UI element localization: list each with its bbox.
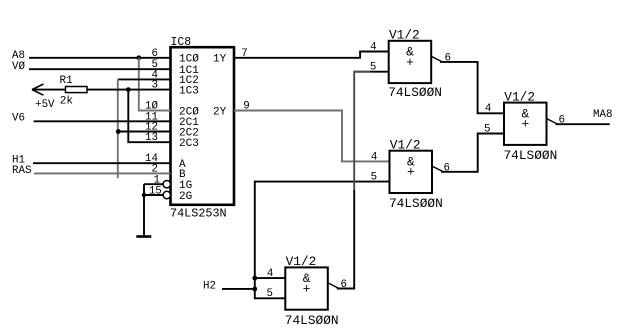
svg-text:2: 2	[152, 163, 158, 175]
wire 2G pin 15	[144, 194, 163, 196]
svg-text:+: +	[303, 281, 311, 296]
svg-text:15: 15	[149, 185, 162, 197]
svg-text:13: 13	[145, 132, 158, 144]
svg-text:74LSØØN: 74LSØØN	[388, 85, 442, 100]
inversion bubble 2G	[163, 191, 170, 198]
svg-text:IC8: IC8	[171, 36, 192, 49]
svg-text:V6: V6	[12, 112, 25, 124]
resistor R1	[66, 87, 88, 93]
node junction R1/2C3	[126, 87, 131, 92]
svg-text:2C3: 2C3	[179, 138, 199, 150]
wire 2Y to gate U1B pin 4	[234, 111, 390, 162]
gate U1B box 74LS00	[390, 151, 433, 193]
svg-text:6: 6	[444, 163, 450, 175]
svg-text:5: 5	[267, 288, 273, 300]
node junction H2/gateD pin4	[252, 276, 257, 281]
wire H1 to A pin 14	[33, 162, 171, 164]
wire 2C2 pin 12 stub	[118, 131, 170, 133]
svg-text:2G: 2G	[179, 191, 192, 203]
svg-text:74LSØØN: 74LSØØN	[389, 196, 443, 211]
gate U1B output slash	[432, 166, 443, 172]
svg-text:V1/2: V1/2	[389, 28, 420, 43]
wire H2	[222, 288, 255, 290]
inversion bubble 1G	[163, 181, 170, 188]
wire V6 to 2C1 pin 11	[34, 120, 171, 122]
svg-text:R1: R1	[60, 75, 74, 87]
wire U1D out upper to U1A pin 5	[354, 72, 370, 190]
wire V0 to 1C1 pin 5	[29, 68, 171, 70]
gate U1D output slash	[328, 283, 339, 289]
svg-text:4: 4	[485, 103, 491, 115]
op-amp gate U1A box 74LS00	[389, 41, 432, 83]
svg-text:4: 4	[267, 268, 273, 280]
node junction A8/2C0	[136, 55, 141, 60]
svg-text:+5V: +5V	[35, 99, 55, 111]
svg-text:MA8: MA8	[593, 109, 612, 121]
gate U1A pin 5 wire	[354, 71, 389, 73]
svg-text:74LSØØN: 74LSØØN	[285, 313, 339, 328]
node junction 2C2	[116, 129, 121, 134]
svg-text:5: 5	[484, 123, 490, 135]
svg-text:+: +	[407, 165, 415, 180]
svg-text:2k: 2k	[60, 96, 74, 108]
wire U1C out to MA8	[556, 123, 610, 125]
svg-text:+: +	[406, 55, 414, 70]
wire vertical 1C2/2C2/RAS	[117, 79, 119, 178]
wire vertical R1 net to 2C3	[128, 90, 170, 143]
node junction 1G/2G/ground	[142, 193, 146, 197]
wire 1G pin 1	[144, 183, 163, 185]
svg-text:+: +	[521, 117, 529, 132]
svg-text:74LSØØN: 74LSØØN	[504, 148, 558, 163]
ground	[136, 235, 151, 238]
svg-text:RAS: RAS	[12, 165, 31, 177]
svg-text:V1/2: V1/2	[504, 89, 535, 104]
wire to gate U1D pin 4	[255, 277, 285, 279]
svg-text:3: 3	[152, 80, 158, 92]
wire +5V to R1	[32, 89, 66, 91]
svg-text:1Y: 1Y	[213, 54, 227, 66]
wire 1C2 pin 4 stub	[118, 78, 171, 80]
IC8 box	[171, 47, 235, 205]
svg-text:H2: H2	[203, 280, 216, 292]
gate U1C box 74LS00	[504, 103, 547, 145]
gate U1C output slash	[547, 119, 558, 125]
wire R1 to 1C3 pin 3	[87, 89, 171, 91]
svg-text:1C3: 1C3	[179, 85, 199, 97]
wire 1G to 2G vertical	[143, 184, 145, 195]
svg-text:74LS253N: 74LS253N	[170, 207, 227, 221]
wire RAS to B pin 2	[34, 172, 171, 174]
node junction H2	[252, 287, 257, 292]
svg-text:VØ: VØ	[12, 61, 25, 73]
svg-text:4: 4	[371, 151, 377, 163]
wire U1D out lower	[337, 190, 354, 289]
gate U1A output slash	[431, 56, 442, 62]
wire to ground	[143, 195, 145, 236]
svg-text:V1/2: V1/2	[286, 254, 317, 269]
wire A8 to 1C0 pin 6	[29, 57, 171, 59]
gate U1D box 74LS00	[285, 267, 328, 309]
svg-text:V1/2: V1/2	[390, 137, 421, 152]
wire 1Y to gate U1A pin 4	[234, 52, 389, 58]
svg-text:1CØ: 1CØ	[179, 54, 199, 66]
gate U1B pin 5 wire to H2 net	[255, 182, 390, 299]
wire U1B out to U1C pin 5	[441, 134, 504, 172]
svg-text:2Y: 2Y	[213, 106, 227, 118]
wire U1A out to U1C pin 4	[440, 62, 504, 113]
wire vertical A8 to 2C0	[139, 58, 171, 111]
+5V arrow	[32, 84, 44, 95]
svg-text:6: 6	[152, 48, 158, 60]
svg-text:4: 4	[370, 41, 376, 53]
